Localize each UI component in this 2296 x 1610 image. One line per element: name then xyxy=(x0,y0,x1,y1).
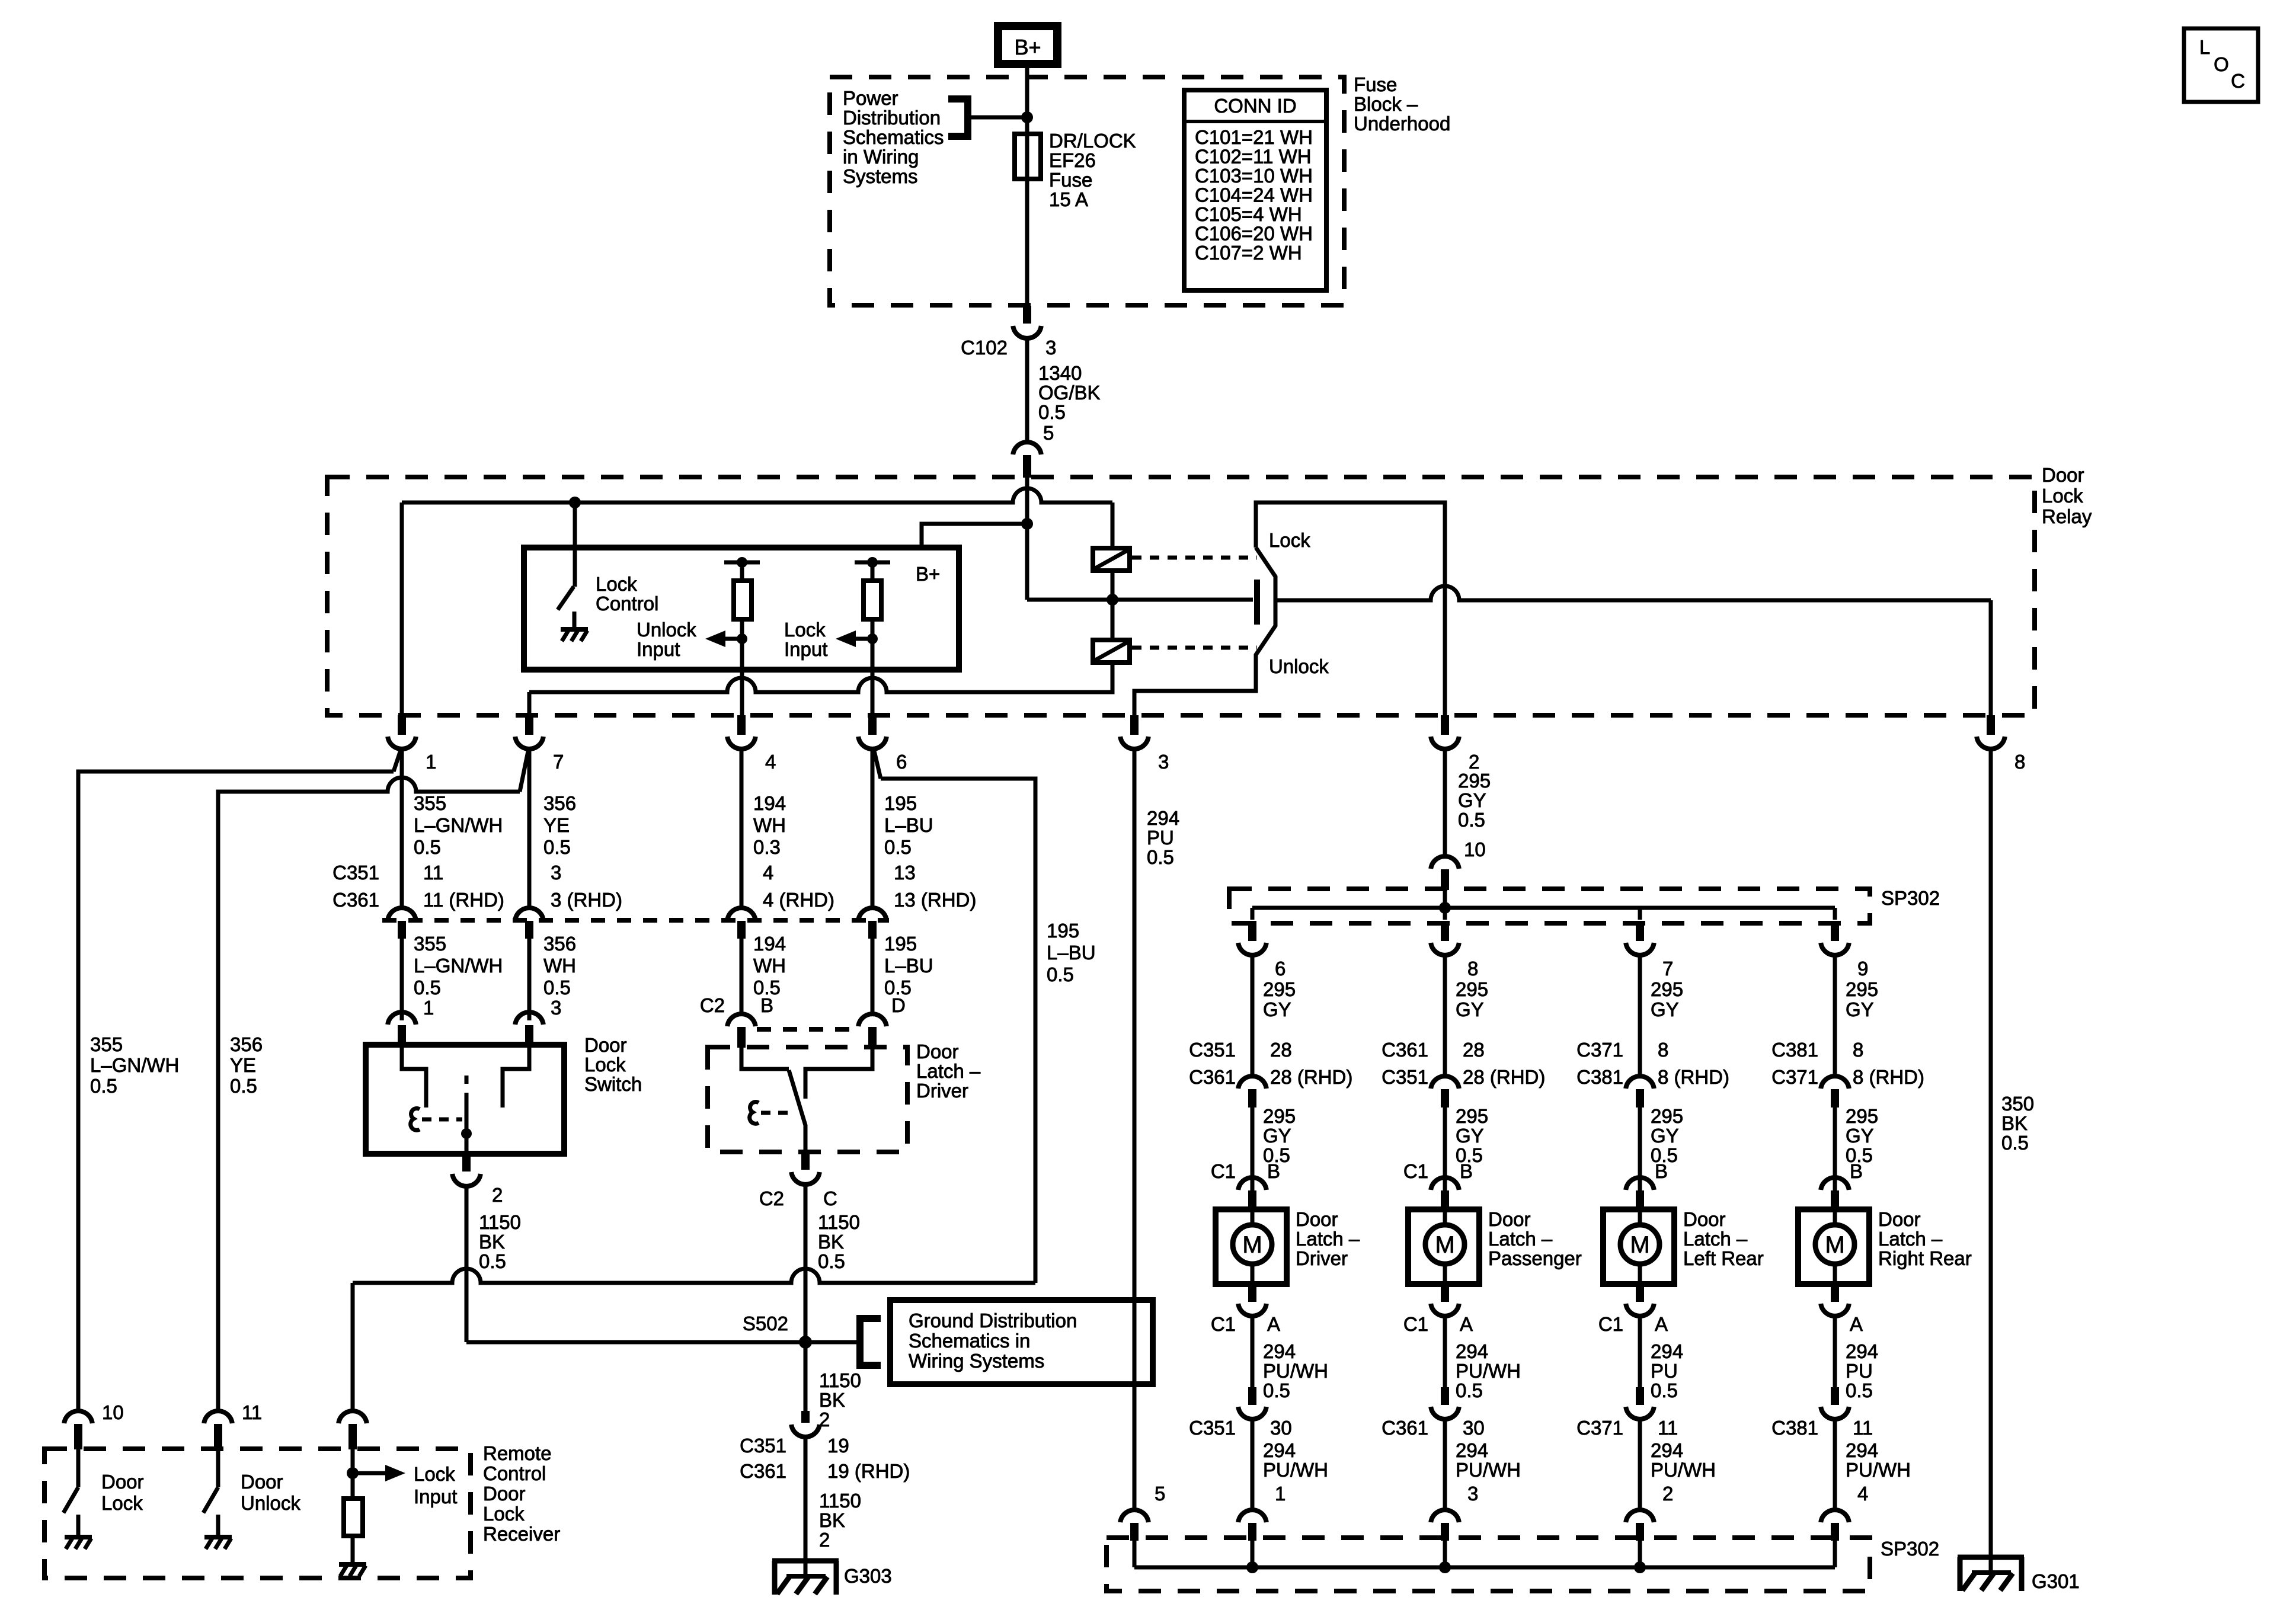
label Door Latch Driver xyxy=(916,1041,981,1102)
label switch pin 3 xyxy=(551,997,561,1019)
svg-text:30: 30 xyxy=(1463,1417,1485,1439)
svg-text:8: 8 xyxy=(1853,1039,1863,1061)
svg-text:0.5: 0.5 xyxy=(414,977,441,998)
bracket to power distribution note xyxy=(948,99,968,136)
svg-text:M: M xyxy=(1435,1232,1454,1258)
wire pin4 drop xyxy=(740,748,744,907)
wire lock output loop xyxy=(1256,502,1445,715)
svg-text:Fuse: Fuse xyxy=(1354,73,1397,95)
latch moving arm xyxy=(789,1070,805,1152)
svg-text:B: B xyxy=(1267,1160,1280,1182)
svg-text:7: 7 xyxy=(1662,958,1673,980)
svg-text:194: 194 xyxy=(753,792,786,814)
door latch motor Left Rear xyxy=(1603,1209,1674,1284)
label 194 WH 0.5 col3 xyxy=(753,933,786,998)
wire col3 to latch xyxy=(740,939,744,1012)
svg-text:15 A: 15 A xyxy=(1049,188,1088,210)
svg-text:194: 194 xyxy=(753,933,786,955)
svg-text:C107=2 WH: C107=2 WH xyxy=(1195,242,1302,264)
junction dot coil rail xyxy=(1107,594,1118,606)
svg-text:295: 295 xyxy=(1651,1105,1683,1127)
svg-text:294: 294 xyxy=(1651,1439,1683,1461)
lock control ground xyxy=(561,612,588,641)
svg-text:Door: Door xyxy=(584,1034,627,1056)
svg-text:Door: Door xyxy=(1878,1208,1921,1230)
label relay pin 1 xyxy=(426,751,436,773)
label C361 pin 3 RHD xyxy=(551,889,622,911)
wire SP302 drop 6 xyxy=(1251,908,1255,920)
wire pin10 to bus xyxy=(1443,890,1447,908)
wire coil return with hops xyxy=(529,678,889,692)
label relay pin 8 xyxy=(2014,751,2025,773)
svg-text:C361: C361 xyxy=(332,889,379,911)
svg-text:Latch –: Latch – xyxy=(916,1060,981,1082)
label 1150 BK 0.5 latch xyxy=(818,1211,860,1272)
svg-text:B: B xyxy=(1655,1160,1668,1182)
svg-text:Distribution: Distribution xyxy=(843,107,941,129)
svg-text:GY: GY xyxy=(1263,1125,1291,1147)
svg-text:C104=24 WH: C104=24 WH xyxy=(1195,184,1313,206)
connector relay pin 8 xyxy=(1977,715,2005,749)
label C1 B 7 xyxy=(1655,1160,1668,1182)
switch moving arm xyxy=(465,1076,469,1154)
svg-text:0.5: 0.5 xyxy=(1846,1379,1873,1401)
connector relay pin 3 xyxy=(1120,715,1149,749)
svg-text:PU/WH: PU/WH xyxy=(1846,1459,1911,1481)
connector C381 pin 11 xyxy=(1821,1387,1849,1419)
svg-text:Latch –: Latch – xyxy=(1878,1228,1943,1250)
label C1 A 8 xyxy=(1403,1313,1473,1335)
svg-text:Input: Input xyxy=(784,638,827,660)
svg-text:19: 19 xyxy=(827,1435,849,1457)
svg-text:BK: BK xyxy=(479,1231,505,1253)
label C351 pin 11 xyxy=(423,862,443,884)
svg-text:Wiring Systems: Wiring Systems xyxy=(909,1350,1044,1372)
svg-text:L–BU: L–BU xyxy=(884,814,933,836)
svg-text:PU: PU xyxy=(1651,1360,1678,1382)
label 1150 BK 0.5 switch xyxy=(479,1211,521,1272)
connector SP302 pin 10 xyxy=(1431,856,1459,890)
svg-text:C361: C361 xyxy=(1382,1039,1428,1061)
svg-text:294: 294 xyxy=(1846,1340,1878,1362)
wire relay pin3 down xyxy=(1133,748,1137,1509)
CONN ID rows xyxy=(1195,126,1313,264)
label SP302 lower xyxy=(1881,1538,1939,1560)
svg-text:2: 2 xyxy=(1662,1483,1673,1505)
svg-text:Unlock: Unlock xyxy=(1269,655,1329,677)
label C361 pin 4 RHD xyxy=(763,889,834,911)
label C351 row xyxy=(332,862,379,884)
door latch motor Passenger xyxy=(1408,1209,1479,1284)
SP302 lower dashed box xyxy=(1107,1538,1870,1591)
svg-text:28 (RHD): 28 (RHD) xyxy=(1463,1066,1545,1088)
label C1 A 6 xyxy=(1211,1313,1280,1335)
svg-text:C1: C1 xyxy=(1403,1313,1428,1335)
wire relay pin8 down xyxy=(1989,748,1993,1557)
svg-text:WH: WH xyxy=(753,814,786,836)
label Door Latch Passenger xyxy=(1488,1208,1582,1269)
label C361 row xyxy=(332,889,379,911)
svg-text:0.5: 0.5 xyxy=(1458,809,1485,831)
label C351 30 xyxy=(1189,1417,1292,1439)
connector switch pin 3 xyxy=(515,1012,543,1045)
wire pin5 into bus xyxy=(1133,1541,1137,1567)
label C351 pin 3 xyxy=(551,862,561,884)
wire to SP302 low 9 xyxy=(1833,1419,1837,1509)
svg-text:3: 3 xyxy=(551,862,561,884)
connector receiver pin 10 xyxy=(64,1411,92,1449)
svg-text:GY: GY xyxy=(1458,789,1486,811)
ground distribution schematics box xyxy=(890,1300,1153,1384)
label 356 YE 0.5 pin7 xyxy=(543,792,576,858)
label C351 19 xyxy=(740,1435,849,1457)
wire pin6 branch diagonal xyxy=(874,748,881,779)
svg-text:Input: Input xyxy=(637,638,680,660)
wire B+ feed drop xyxy=(1025,478,1029,600)
svg-text:4: 4 xyxy=(1857,1483,1868,1505)
svg-text:11: 11 xyxy=(1853,1417,1873,1439)
svg-text:3: 3 xyxy=(1158,751,1169,773)
svg-text:CONN ID: CONN ID xyxy=(1214,95,1296,117)
label 294 PU 0.5 9 xyxy=(1846,1340,1878,1401)
svg-text:G303: G303 xyxy=(844,1565,892,1587)
wire feed to coil rail xyxy=(1027,598,1112,602)
svg-text:C103=10 WH: C103=10 WH xyxy=(1195,165,1313,187)
wire col2 to switch xyxy=(527,939,532,1020)
resistor lock input xyxy=(855,557,890,715)
svg-text:Right Rear: Right Rear xyxy=(1878,1247,1972,1269)
svg-text:Latch –: Latch – xyxy=(1296,1228,1360,1250)
svg-text:355: 355 xyxy=(90,1033,123,1055)
connector relay pin 6 xyxy=(858,715,887,749)
svg-text:C361: C361 xyxy=(740,1460,786,1482)
svg-text:Unlock: Unlock xyxy=(241,1492,300,1514)
label SP302 pin 2 xyxy=(1662,1483,1673,1505)
label Door Unlock receiver xyxy=(241,1471,300,1514)
connector relay pin 1 xyxy=(388,715,416,749)
svg-text:28: 28 xyxy=(1270,1039,1292,1061)
svg-text:Schematics in: Schematics in xyxy=(909,1330,1030,1352)
wire common feed to contact xyxy=(1112,598,1253,602)
wire pin7 to door lock switch xyxy=(527,748,532,907)
svg-text:13: 13 xyxy=(894,862,916,884)
latch actuator dashed link xyxy=(761,1111,794,1115)
label SP302 pin 3 xyxy=(1467,1483,1478,1505)
label fuse DR/LOCK EF26 Fuse 15 A xyxy=(1049,130,1136,210)
svg-text:Lock: Lock xyxy=(1269,529,1310,551)
svg-text:C351: C351 xyxy=(1189,1039,1236,1061)
wire 8 to connector xyxy=(1443,954,1447,1074)
svg-text:294: 294 xyxy=(1263,1340,1296,1362)
svg-text:in Wiring: in Wiring xyxy=(843,146,919,168)
connector C351 pin 13 xyxy=(858,908,887,939)
connector motor pin B 7 xyxy=(1626,1177,1654,1210)
svg-text:Lock: Lock xyxy=(584,1054,626,1076)
svg-text:8 (RHD): 8 (RHD) xyxy=(1853,1066,1924,1088)
wire lock control riser xyxy=(573,502,577,587)
wire to SP302 low 6 xyxy=(1251,1419,1255,1509)
svg-text:BK: BK xyxy=(2001,1112,2028,1134)
wire pin7 branch diagonal xyxy=(520,748,529,792)
svg-text:M: M xyxy=(1242,1232,1262,1258)
wire B+ to fuse xyxy=(1025,68,1029,134)
connector C381 pin 8 xyxy=(1821,1076,1849,1108)
label C1 B 6 xyxy=(1211,1160,1280,1182)
label 195 L-BU 0.5 pin6 xyxy=(884,792,933,858)
svg-text:A: A xyxy=(1460,1313,1473,1335)
svg-text:0.5: 0.5 xyxy=(1047,964,1074,985)
label 295 GY 0.5 pin2 xyxy=(1458,770,1491,831)
label switch pin 1 xyxy=(423,997,434,1019)
arrow lock input xyxy=(836,630,872,647)
svg-text:356: 356 xyxy=(543,933,576,955)
label relay pin 4 xyxy=(765,751,776,773)
door lock relay dashed box xyxy=(327,477,2035,715)
svg-text:C1: C1 xyxy=(1598,1313,1623,1335)
svg-text:Door: Door xyxy=(241,1471,283,1493)
label SP302 pin 1 xyxy=(1275,1483,1285,1505)
svg-text:8: 8 xyxy=(1658,1039,1668,1061)
label Door Lock receiver xyxy=(101,1471,144,1514)
label C371 11 xyxy=(1576,1417,1678,1439)
svg-text:0.3: 0.3 xyxy=(753,836,781,858)
svg-text:C381: C381 xyxy=(1771,1039,1818,1061)
svg-text:Latch –: Latch – xyxy=(1488,1228,1553,1250)
connector motor pin A 8 xyxy=(1431,1284,1459,1316)
label Fuse Block - Underhood xyxy=(1354,73,1450,135)
connector motor pin A 9 xyxy=(1821,1284,1849,1316)
label G303 xyxy=(844,1565,892,1587)
label 195 L-BU 0.5 branch xyxy=(1047,920,1096,985)
label C361 pin 11 RHD xyxy=(423,889,504,911)
svg-text:4: 4 xyxy=(763,862,773,884)
wire branch to receiver unlock xyxy=(218,777,520,1410)
label C361 28 xyxy=(1382,1039,1485,1061)
svg-text:C371: C371 xyxy=(1576,1039,1623,1061)
svg-text:C106=20 WH: C106=20 WH xyxy=(1195,223,1313,245)
CONN ID table xyxy=(1184,90,1326,290)
receiver door lock switch xyxy=(63,1449,92,1549)
connector receiver pin 11 xyxy=(204,1411,232,1449)
wire 8 to motor xyxy=(1443,1108,1447,1190)
svg-text:PU/WH: PU/WH xyxy=(1651,1459,1716,1481)
remote receiver dashed box xyxy=(44,1449,471,1578)
label 1150 BK 2 upper xyxy=(819,1369,861,1430)
connector receiver lock input xyxy=(338,1411,367,1449)
svg-text:Lock: Lock xyxy=(2042,485,2083,507)
latch contact B xyxy=(741,1047,789,1069)
wire pin1 to door lock switch xyxy=(400,748,404,907)
connector relay pin 5 xyxy=(1013,442,1041,478)
label 355 L-GN/WH far left xyxy=(90,1033,179,1097)
svg-text:C2: C2 xyxy=(759,1188,784,1209)
SP302 upper dashed box xyxy=(1229,889,1870,923)
label 356 YE far left xyxy=(230,1033,263,1097)
wire 9 to motor xyxy=(1833,1108,1837,1190)
svg-text:GY: GY xyxy=(1651,998,1679,1020)
label 194 WH 0.3 xyxy=(753,792,786,858)
wire 7 to motor xyxy=(1638,1108,1642,1190)
svg-text:BK: BK xyxy=(818,1231,844,1253)
svg-text:Ground Distribution: Ground Distribution xyxy=(909,1310,1077,1331)
svg-text:11: 11 xyxy=(423,862,443,884)
label C351 pin 13 xyxy=(894,862,916,884)
connector SP302 low pin 4 xyxy=(1821,1510,1849,1541)
label Door Latch Right Rear xyxy=(1878,1208,1972,1269)
wire coil rail bottom to return xyxy=(889,662,1112,692)
wire motor out 9 xyxy=(1833,1315,1837,1387)
svg-text:3 (RHD): 3 (RHD) xyxy=(551,889,622,911)
wire col1 to switch xyxy=(400,939,404,1020)
svg-text:Lock: Lock xyxy=(483,1503,525,1525)
svg-text:0.5: 0.5 xyxy=(543,836,571,858)
relay coil unlock xyxy=(1093,640,1130,662)
wire motor out 6 xyxy=(1251,1315,1255,1387)
label relay pin 2 xyxy=(1469,751,1479,773)
wire pin6 drop xyxy=(871,748,875,907)
label Door Latch Driver xyxy=(1296,1208,1360,1269)
svg-text:Block –: Block – xyxy=(1354,93,1418,115)
svg-text:Receiver: Receiver xyxy=(483,1523,560,1545)
wire into low bus 8 xyxy=(1443,1541,1447,1567)
svg-text:G301: G301 xyxy=(2032,1570,2080,1592)
svg-text:B+: B+ xyxy=(1014,35,1041,59)
label receiver pin 10 xyxy=(102,1401,124,1423)
svg-text:GY: GY xyxy=(1846,998,1874,1020)
connector C371 pin 11 xyxy=(1626,1387,1654,1419)
wire motor out 7 xyxy=(1638,1315,1642,1387)
ground G303 xyxy=(772,1561,839,1595)
wire pin6 branch to lock input xyxy=(881,779,1035,1283)
svg-text:11: 11 xyxy=(242,1401,262,1423)
label 294 PU/WH low 9 xyxy=(1846,1439,1911,1481)
svg-text:L–BU: L–BU xyxy=(1047,942,1096,964)
svg-text:Lock: Lock xyxy=(414,1463,455,1485)
svg-text:O: O xyxy=(2214,53,2229,75)
svg-text:YE: YE xyxy=(543,814,570,836)
connector SP302 low pin 3 xyxy=(1431,1510,1459,1541)
connector C351 pin 30 xyxy=(1238,1387,1267,1419)
junction dot unlock input xyxy=(737,633,747,644)
svg-text:1150: 1150 xyxy=(479,1211,521,1233)
svg-text:S502: S502 xyxy=(743,1313,788,1334)
svg-text:C1: C1 xyxy=(1211,1160,1236,1182)
svg-text:C371: C371 xyxy=(1576,1417,1623,1439)
svg-text:Power: Power xyxy=(843,87,898,109)
svg-text:Control: Control xyxy=(596,593,658,614)
svg-text:8: 8 xyxy=(1467,958,1478,980)
wire to SP302 low 7 xyxy=(1638,1419,1642,1509)
label 355 L-GN/WH 0.5 col1 xyxy=(414,933,503,998)
dashed link unlock coil xyxy=(1132,646,1257,650)
svg-text:1150: 1150 xyxy=(819,1490,861,1512)
relay fixed contact bar xyxy=(1254,580,1260,625)
relay armature crank xyxy=(1256,548,1275,689)
svg-text:C1: C1 xyxy=(1211,1313,1236,1335)
wire lock input link xyxy=(353,1269,1035,1283)
svg-text:1340: 1340 xyxy=(1038,362,1082,384)
latch contact D xyxy=(805,1047,872,1099)
junction dot switch arm xyxy=(461,1128,472,1139)
wire 6 to connector xyxy=(1251,954,1255,1074)
label pin 9 xyxy=(1857,958,1868,980)
svg-text:1150: 1150 xyxy=(818,1211,860,1233)
svg-text:Lock: Lock xyxy=(784,619,826,641)
label 294 PU/WH low 6 xyxy=(1263,1439,1328,1481)
ground G301 xyxy=(1958,1557,2024,1591)
label receiver pin 11 xyxy=(242,1401,262,1423)
svg-text:PU: PU xyxy=(1846,1360,1873,1382)
label Lock Input receiver xyxy=(414,1463,457,1507)
svg-text:Remote: Remote xyxy=(483,1442,552,1464)
svg-text:L–BU: L–BU xyxy=(884,955,933,977)
svg-text:10: 10 xyxy=(102,1401,124,1423)
power terminal B+ box xyxy=(998,26,1057,64)
connector SP302 low pin 2 xyxy=(1626,1510,1654,1541)
wire relay pin2 down xyxy=(1443,748,1447,856)
label C351 28 RHD xyxy=(1382,1066,1545,1088)
svg-text:294: 294 xyxy=(1651,1340,1683,1362)
svg-text:356: 356 xyxy=(543,792,576,814)
connector latch pin B xyxy=(727,1014,756,1048)
label relay pin 6 xyxy=(896,751,907,773)
label Unlock Input xyxy=(637,619,696,660)
svg-text:1: 1 xyxy=(1275,1483,1285,1505)
svg-text:7: 7 xyxy=(553,751,564,773)
svg-text:B: B xyxy=(1850,1160,1863,1182)
wire to module B+ xyxy=(922,524,1027,548)
label 350 BK 0.5 xyxy=(2001,1093,2034,1154)
receiver resistor xyxy=(344,1499,363,1536)
svg-text:0.5: 0.5 xyxy=(2001,1132,2029,1154)
wire col4 to latch xyxy=(871,939,875,1012)
svg-text:350: 350 xyxy=(2001,1093,2034,1115)
wire relay pin7 riser xyxy=(527,692,532,715)
svg-text:C105=4 WH: C105=4 WH xyxy=(1195,203,1302,225)
wire S502 junction row xyxy=(466,1340,805,1345)
svg-text:PU/WH: PU/WH xyxy=(1456,1459,1521,1481)
svg-text:A: A xyxy=(1655,1313,1668,1335)
svg-text:30: 30 xyxy=(1270,1417,1292,1439)
wire coil rail mid xyxy=(1111,571,1115,640)
svg-text:C1: C1 xyxy=(1403,1160,1428,1182)
label C1 A 7 xyxy=(1598,1313,1668,1335)
connector SP302 low pin 5 xyxy=(1120,1510,1149,1541)
fuse block underhood dashed box xyxy=(830,77,1344,305)
dashed link B to D xyxy=(757,1027,857,1032)
wire receiver lock input drop xyxy=(351,1283,355,1410)
wire pin1 branch diagonal xyxy=(394,748,401,772)
label 295 GY 0.5 7 xyxy=(1651,1105,1683,1166)
svg-text:294: 294 xyxy=(1147,807,1179,829)
wire coil feed rail xyxy=(402,488,1112,502)
connector C351 pin 28 xyxy=(1238,1076,1267,1108)
SP302 lower bus xyxy=(1134,1566,1835,1570)
svg-text:Latch –: Latch – xyxy=(1683,1228,1748,1250)
svg-text:13 (RHD): 13 (RHD) xyxy=(894,889,976,911)
latch actuator curl xyxy=(750,1102,759,1124)
svg-text:GY: GY xyxy=(1456,1125,1484,1147)
label 295 GY 0.5 9 xyxy=(1846,1105,1878,1166)
label C371 8 xyxy=(1576,1039,1668,1061)
label 294 PU 0.5 xyxy=(1147,807,1179,868)
connector SP302 low pin 1 xyxy=(1238,1510,1267,1541)
svg-text:L–GN/WH: L–GN/WH xyxy=(90,1054,179,1076)
svg-text:2: 2 xyxy=(492,1184,503,1206)
connector C102 pin 3 xyxy=(1013,306,1041,338)
svg-text:Passenger: Passenger xyxy=(1488,1247,1582,1269)
svg-text:3: 3 xyxy=(551,997,561,1019)
